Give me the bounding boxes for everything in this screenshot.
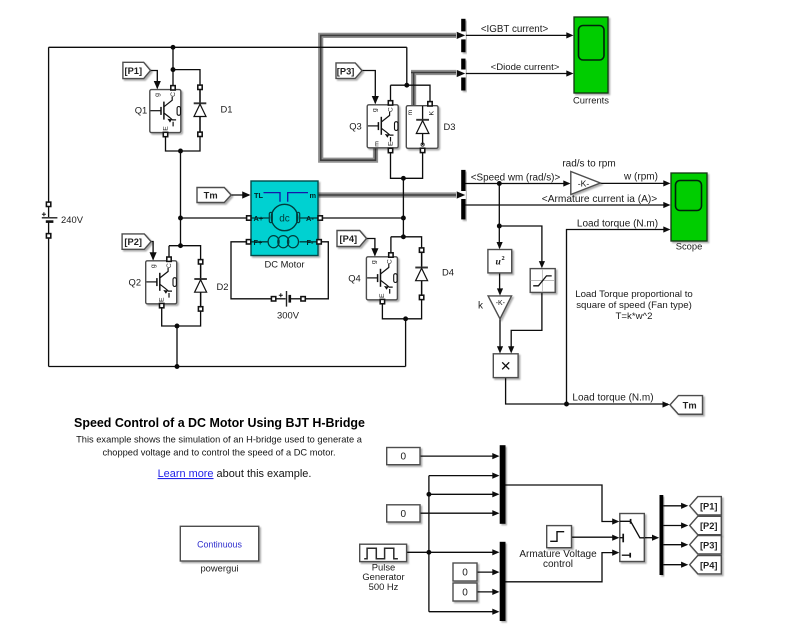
constant 0 #3 <box>453 563 477 581</box>
wire: right leg top drop to Q3/D3 <box>391 47 431 104</box>
arrow: gain input arrow <box>563 180 570 186</box>
diode D4 <box>421 250 423 297</box>
wire: armature current signal to Scope <box>466 204 669 206</box>
svg-text:TL: TL <box>254 191 264 200</box>
bus: D3 diode measurement to Diode-current selector <box>411 73 456 106</box>
gain block rad/s to rpm <box>571 172 601 195</box>
svg-text:0: 0 <box>401 452 407 463</box>
svg-text:A+: A+ <box>254 214 264 223</box>
gain block k <box>488 296 511 319</box>
port: D1 cathode port <box>198 85 202 89</box>
port: Q2 emitter port <box>160 303 164 307</box>
wire: step block to switch control input <box>572 536 617 538</box>
wire: DC source top rail <box>49 46 407 48</box>
port: motor A- port <box>318 216 322 220</box>
svg-text:E: E <box>379 293 386 298</box>
svg-text:<Armature current ia (A)>: <Armature current ia (A)> <box>542 194 658 205</box>
wire: constant 0 #2 to mux1 <box>420 512 498 514</box>
port: motor A+ port <box>247 216 251 220</box>
wire: speed signal to rad/s-to-rpm gain <box>466 183 570 185</box>
node: Q4/D4 collector branch <box>401 234 406 239</box>
wire: Q2/D2 emitter junction to bottom rail <box>162 292 201 326</box>
svg-text:0: 0 <box>401 509 407 520</box>
svg-text:[P1]: [P1] <box>125 66 143 76</box>
svg-text:Speed Control of a DC Motor Us: Speed Control of a DC Motor Using BJT H-… <box>74 416 365 430</box>
pulse generator block <box>360 544 407 561</box>
wire: Diode current bus selector to Currents scope <box>466 73 572 75</box>
svg-text:g: g <box>150 264 157 268</box>
wire: Tm tag to motor TL input <box>231 194 249 196</box>
transistor Q2 <box>146 261 177 304</box>
node: speed branch <box>497 181 502 186</box>
arrow: mux1 in1 arrow <box>492 453 499 459</box>
wire: 300V battery to F- <box>302 242 328 299</box>
svg-text:dc: dc <box>279 213 290 224</box>
port: D3 anode port <box>420 148 424 152</box>
svg-text:Q4: Q4 <box>348 273 361 284</box>
svg-text:A-: A- <box>306 214 314 223</box>
step block Armature Voltage control <box>547 526 572 548</box>
powergui block <box>180 526 258 561</box>
svg-text:Tm: Tm <box>204 191 218 201</box>
arrow: product input2 arrow <box>508 346 514 353</box>
svg-text:C: C <box>387 259 394 264</box>
wire: armature A+ lead <box>181 217 250 219</box>
svg-text:This example shows the simulat: This example shows the simulation of an … <box>76 435 363 445</box>
node: pulse trunk tap <box>426 550 431 555</box>
wire: armature A- lead <box>320 217 403 219</box>
svg-text:m: m <box>374 141 381 147</box>
svg-text:Load torque (N.m): Load torque (N.m) <box>572 393 653 404</box>
svg-text:0: 0 <box>462 588 468 599</box>
svg-text:m: m <box>407 110 414 116</box>
wire: [P3] tag to Q3 gate <box>362 71 375 104</box>
wire: constant 0 #1 to mux1 <box>420 455 498 457</box>
node: Q3/D3 emitter junction <box>401 176 406 181</box>
svg-text:E: E <box>163 126 170 131</box>
arrow: goto P3 arrow <box>681 542 688 548</box>
transistor Q3 <box>367 105 398 148</box>
svg-text:<Diode current>: <Diode current> <box>491 62 560 73</box>
port: 300V battery + port <box>271 297 275 301</box>
node: load torque tap <box>564 402 569 407</box>
svg-text:[P3]: [P3] <box>337 66 355 76</box>
wire: w (rpm) gain output to Scope <box>600 182 668 184</box>
constant 0 #2 <box>387 505 420 522</box>
constant 0 #4 <box>453 583 477 601</box>
wire: [P2] tag to Q2 gate <box>151 242 153 260</box>
arrow: Tm goto arrow <box>663 401 670 407</box>
from tag [P3] <box>336 63 362 79</box>
svg-text:F+: F+ <box>254 238 264 247</box>
arrow: Scope input2 arrow <box>663 202 670 208</box>
arrow: Q1 gate arrow <box>154 81 161 89</box>
svg-text:Tm: Tm <box>683 401 697 411</box>
node: Q2/D2 collector branch <box>178 243 183 248</box>
wire: control trunk vertical <box>428 476 430 612</box>
from tag [P1] <box>123 62 151 78</box>
product block <box>493 354 518 378</box>
svg-text:C: C <box>166 263 173 268</box>
port: D2 anode port <box>198 307 202 311</box>
arrow: motor measurement bus into selector <box>457 191 465 198</box>
mux1 (upper pulse mux) <box>500 445 506 524</box>
svg-text:D4: D4 <box>442 267 454 278</box>
svg-text:[P3]: [P3] <box>700 540 718 550</box>
diode D1 <box>199 88 201 135</box>
svg-text:[P4]: [P4] <box>340 234 358 244</box>
goto tag [P1] <box>690 497 722 515</box>
wire: constant 0 #4 to mux2 <box>477 591 498 593</box>
port: Q1 collector port <box>171 86 175 90</box>
arrow: Currents input2 arrow <box>566 70 573 76</box>
svg-text:square of speed (Fan type): square of speed (Fan type) <box>576 300 692 311</box>
svg-text:K: K <box>429 111 436 116</box>
wire: trunk to mux1 input 2 <box>429 475 498 477</box>
arrow: Diode current bus into selector <box>457 70 465 77</box>
wire: mux2 output to switch input 3 <box>505 553 616 582</box>
port: 240V battery + port <box>46 202 50 206</box>
arrow: Q2 gate arrow <box>150 252 157 260</box>
transistor Q1 <box>150 90 181 133</box>
svg-text:Q2: Q2 <box>129 277 142 288</box>
svg-text:g: g <box>154 93 161 97</box>
wire: bus creator to [P3] goto <box>663 544 686 546</box>
svg-text:Q3: Q3 <box>349 121 362 132</box>
wire: bus creator to [P2] goto <box>663 525 686 527</box>
svg-text:F-: F- <box>307 238 315 247</box>
arrow: switch in2 arrow <box>612 535 619 541</box>
svg-text:300V: 300V <box>277 309 300 320</box>
saturation block <box>530 269 555 293</box>
wire: mux1 output to switch input 1 <box>505 485 616 522</box>
arrow: Scope input3 arrow <box>663 226 670 232</box>
svg-text:w (rpm): w (rpm) <box>623 172 658 183</box>
svg-text:[P4]: [P4] <box>700 560 718 570</box>
node: Q1/D1 emitter junction <box>178 149 183 154</box>
svg-text:Currents: Currents <box>573 95 609 106</box>
port: Q4 collector port <box>389 253 393 257</box>
svg-text:2: 2 <box>502 255 505 262</box>
bus selector: IGBT current <box>461 19 465 52</box>
port: D2 cathode port <box>198 260 202 264</box>
port: D4 cathode port <box>419 248 423 252</box>
wire: Q4 collector / D4 branch <box>391 237 422 268</box>
svg-text:E: E <box>388 141 395 146</box>
mux2 (lower pulse mux) <box>500 542 506 621</box>
wire: IGBT current bus selector to Currents scope <box>466 34 572 36</box>
svg-text:[P2]: [P2] <box>124 237 142 247</box>
wire: Q4/D4 emitter junction to bottom rail <box>382 281 421 319</box>
arrow: mux2 in4 arrow <box>492 609 499 615</box>
wire: k gain to product <box>499 319 501 352</box>
port: D1 anode port <box>198 132 202 136</box>
svg-text:Scope: Scope <box>676 240 703 251</box>
port: Q1 emitter port <box>163 132 167 136</box>
math block u^2 <box>488 250 512 273</box>
wire: speed branch down to u^2 and saturation <box>498 184 500 248</box>
goto tag Tm (load torque) <box>670 396 703 415</box>
bus selector: motor measurement demux <box>461 170 465 220</box>
wire: u^2 to k gain <box>499 273 501 294</box>
arrow: motor TL arrow <box>242 191 250 198</box>
arrow: mux2 in3 arrow <box>492 589 499 595</box>
arrow: switch in3 arrow <box>612 550 619 556</box>
svg-text:control: control <box>543 559 573 570</box>
goto tag [P3] <box>690 536 722 554</box>
port: Q2 collector port <box>167 257 171 261</box>
node: Q1-D1 collector branch <box>171 67 176 72</box>
wire: Q1/D1 emitter junction to A+ node <box>166 117 201 152</box>
svg-text:Learn more about this example.: Learn more about this example. <box>158 468 312 480</box>
node: trunk to mux1 input3 <box>426 492 431 497</box>
arrow: mux2 in1 arrow <box>492 549 499 555</box>
arrow: Currents input1 arrow <box>566 32 573 38</box>
svg-text:k: k <box>478 301 484 312</box>
wire: [P4] tag to Q4 gate <box>367 239 375 256</box>
arrow: mux1 in4 arrow <box>492 510 499 516</box>
svg-text:C: C <box>387 107 394 112</box>
wire: Q1 collector drop + D1 branch <box>172 47 174 88</box>
svg-text:[P1]: [P1] <box>700 501 718 511</box>
arrow: mux1 in3 arrow <box>492 491 499 497</box>
svg-text:<IGBT current>: <IGBT current> <box>481 24 549 35</box>
wire: trunk to mux2 input 4 <box>429 611 498 613</box>
wire: bottom rail <box>49 366 406 368</box>
node: A+ tap <box>178 216 183 221</box>
port: 240V battery - port <box>46 234 50 238</box>
bus creator for gate pulses <box>660 495 664 575</box>
svg-text:powergui: powergui <box>200 563 238 574</box>
node: A- tap <box>401 216 406 221</box>
arrow: Q4 gate arrow <box>371 248 378 256</box>
wire: bus creator to [P4] goto <box>663 564 686 566</box>
svg-text:Continuous: Continuous <box>197 539 242 549</box>
transistor Q4 <box>366 257 397 300</box>
arrow: goto P1 arrow <box>681 503 688 509</box>
goto tag [P2] <box>690 516 722 534</box>
switch block <box>620 514 645 562</box>
arrow: mux1 in2 arrow <box>492 473 499 479</box>
diode block D3 <box>406 106 438 149</box>
arrow: goto P2 arrow <box>681 522 688 528</box>
port: D4 anode port <box>419 295 423 299</box>
arrow: u^2 input arrow <box>497 242 503 249</box>
from tag [P4] <box>337 231 367 247</box>
arrow: goto P4 arrow <box>681 562 688 568</box>
svg-text:500 Hz: 500 Hz <box>369 581 399 592</box>
svg-text:DC Motor: DC Motor <box>264 258 304 269</box>
from tag Tm (motor torque input) <box>197 188 231 203</box>
wire: product output to Tm goto <box>506 378 668 404</box>
svg-text:g: g <box>371 260 378 264</box>
port: motor F- port <box>317 240 321 244</box>
svg-text:0: 0 <box>462 568 468 579</box>
port: Q3 emitter port <box>388 148 392 152</box>
battery 240V <box>48 206 50 217</box>
constant 0 #1 <box>387 448 420 465</box>
port: 300V battery - port <box>301 297 305 301</box>
arrow: k gain input arrow <box>497 288 503 295</box>
svg-text:D1: D1 <box>221 104 233 115</box>
wire: Q3/D3 lower junction to A- node <box>391 149 423 179</box>
svg-text:Load torque (N.m): Load torque (N.m) <box>577 218 658 229</box>
svg-text:rad/s to rpm: rad/s to rpm <box>562 158 615 169</box>
port: Q4 emitter port <box>380 299 384 303</box>
wire: [P1] tag to Q1 gate <box>151 71 158 89</box>
node: Q4/D4 emitter junction <box>403 316 408 321</box>
wire: field winding loop F+ to 300V battery <box>231 242 273 299</box>
svg-text:<Speed wm (rad/s)>: <Speed wm (rad/s)> <box>471 172 561 183</box>
port: D3 cathode port <box>428 102 432 106</box>
node: bottom rail tap left <box>175 364 180 369</box>
svg-text:m: m <box>310 191 317 200</box>
svg-text:C: C <box>170 92 177 97</box>
wire: saturation to product <box>511 292 542 351</box>
wire: Q2 collector / D2 branch <box>169 246 201 279</box>
diode D2 <box>200 262 202 309</box>
DC Motor block <box>251 181 318 256</box>
wire: constant 0 #3 to mux2 <box>477 571 498 573</box>
bus: DC motor measurement output to demux selector <box>318 192 456 197</box>
svg-text:E: E <box>158 297 165 302</box>
node: saturation branch <box>497 224 502 229</box>
svg-text:[P2]: [P2] <box>700 521 718 531</box>
port: Q3 collector port <box>388 101 392 105</box>
from tag [P2] <box>122 234 151 249</box>
battery 300V <box>275 298 286 300</box>
svg-text:D2: D2 <box>217 281 229 292</box>
svg-text:240V: 240V <box>61 214 84 225</box>
arrow: bus creator input arrow <box>652 535 659 541</box>
arrow: Scope input1 arrow <box>663 180 670 186</box>
scope block Scope <box>671 173 707 241</box>
svg-text:Q1: Q1 <box>135 105 148 116</box>
svg-text:Load Torque proportional to: Load Torque proportional to <box>575 289 693 300</box>
bus selector: Diode current <box>461 59 465 91</box>
wire: left vertical from 240V battery <box>48 47 50 203</box>
arrow: mux2 in2 arrow <box>492 569 499 575</box>
port: motor F+ port <box>246 240 250 244</box>
svg-text:g: g <box>372 108 379 112</box>
wire: pulse generator output to mux2 <box>407 551 498 553</box>
svg-text:D3: D3 <box>444 121 456 132</box>
node: Q3/D3 collector branch <box>404 83 409 88</box>
scope block Currents <box>574 17 608 93</box>
bus: Q3 IGBT measurement to IGBT-current selector <box>321 35 456 160</box>
wire: trunk to mux1 input 3 <box>429 493 498 495</box>
arrow: saturation input arrow <box>539 261 545 268</box>
svg-text:-K-: -K- <box>496 300 505 307</box>
wire: load torque riser to Scope input 3 <box>567 230 669 405</box>
arrow: IGBT current bus into selector <box>457 32 465 39</box>
svg-text:chopped voltage and to control: chopped voltage and to control the speed… <box>102 447 335 457</box>
node: top rail / Q1 <box>171 45 176 50</box>
svg-text:T=k*w^2: T=k*w^2 <box>616 311 653 322</box>
arrow: Q3 gate arrow <box>372 96 379 104</box>
wire: bus creator to [P1] goto <box>663 505 686 507</box>
arrow: product input1 arrow <box>497 346 503 353</box>
node: Q2/D2 emitter junction <box>175 324 180 329</box>
arrow: switch in1 arrow <box>612 518 619 524</box>
svg-text:-K-: -K- <box>578 178 590 188</box>
wire: switch output to pulse bus creator <box>645 537 658 539</box>
goto tag [P4] <box>690 556 722 574</box>
